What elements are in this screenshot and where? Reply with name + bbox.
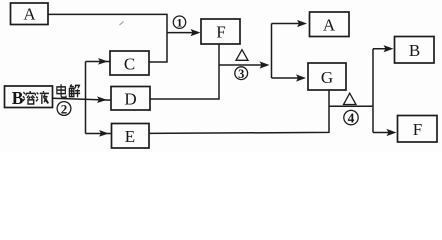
glyph jie (lysis) [69, 84, 80, 97]
wire splitter 2 vertical [372, 49, 374, 133]
label triangle heat 1 [236, 50, 248, 61]
glyph rong (solute char 1) [23, 91, 36, 104]
arrow into box A right [272, 20, 308, 27]
wire electrolysis arrow from B solution to D [53, 96, 111, 103]
box B solution [5, 86, 53, 108]
label circled 1 [173, 16, 185, 30]
wire branch vertical for C D E [85, 62, 87, 134]
glyph ye (solute char 2) [36, 91, 49, 104]
wire splitter to A and G [271, 24, 273, 79]
arrow into box C [86, 58, 110, 65]
svg-text:A: A [23, 4, 36, 23]
box B right [395, 37, 435, 64]
wire from F bottom and D to heat junction [150, 44, 219, 99]
glyph dian (electro) [57, 84, 66, 97]
box A top-right [310, 12, 350, 37]
box G [308, 63, 346, 90]
wire A to junction and C to junction [48, 14, 167, 62]
arrow into box G [272, 74, 307, 81]
arrow into box F bottom-right [373, 129, 397, 136]
svg-text:2: 2 [61, 101, 68, 116]
svg-text:1: 1 [177, 16, 183, 30]
svg-text:B: B [12, 88, 24, 108]
box D [111, 87, 150, 111]
arrow into box E [86, 130, 112, 137]
box A top-left [11, 3, 49, 25]
svg-text:C: C [124, 54, 135, 73]
label triangle heat 2 [344, 93, 357, 104]
svg-text:4: 4 [348, 111, 355, 126]
label circled 3 [235, 67, 248, 81]
svg-text:3: 3 [238, 67, 244, 81]
box C [110, 51, 149, 75]
label circled 4 [344, 110, 358, 125]
arrow 1 into box F [167, 29, 201, 36]
box F bottom-right [398, 116, 438, 143]
arrow into box B right [373, 45, 394, 52]
svg-text:E: E [125, 127, 135, 146]
svg-text:A: A [323, 16, 336, 35]
svg-text:F: F [413, 120, 422, 139]
svg-text:B: B [409, 41, 420, 60]
svg-text:F: F [216, 23, 225, 42]
box F top-middle [201, 19, 240, 44]
wire from E up to G bottom [149, 90, 329, 133]
svg-text:G: G [321, 68, 333, 87]
box E [112, 124, 150, 149]
scan speck [120, 22, 124, 26]
arrow 3 heated to splitter [219, 61, 270, 68]
label circled 2 [57, 101, 71, 116]
wire heat junction from G to splitter 2 [329, 105, 373, 107]
svg-text:D: D [124, 90, 136, 109]
